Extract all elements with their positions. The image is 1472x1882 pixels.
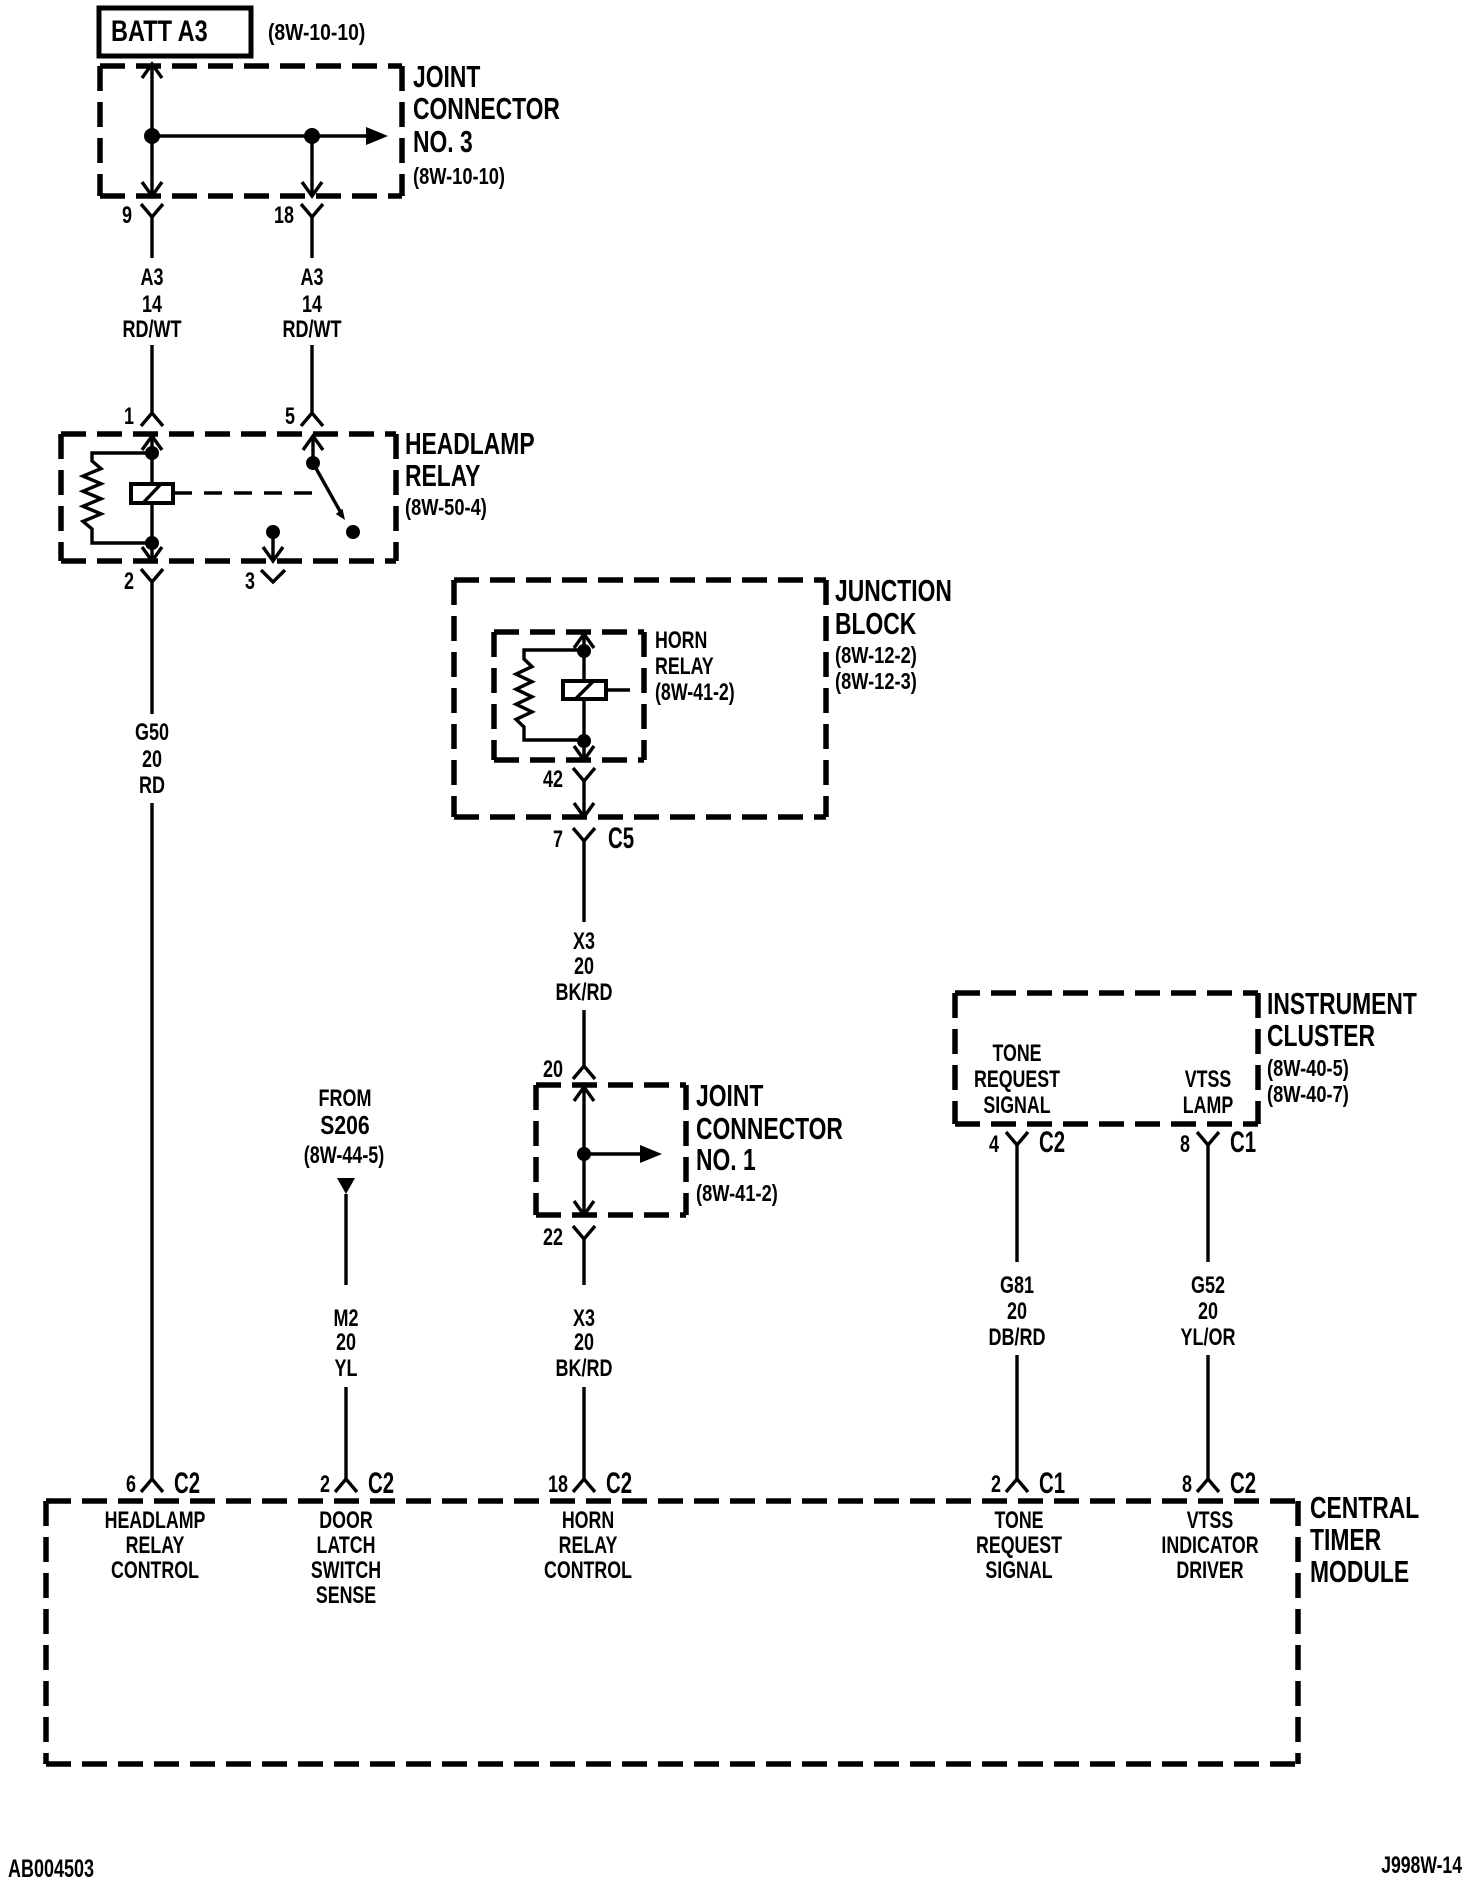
arrow up at JC1 pin 20 <box>574 1087 594 1101</box>
wire label G50 20 RD <box>135 720 169 799</box>
svg-text:RD/WT: RD/WT <box>123 317 182 343</box>
pin 5 connector of headlamp relay <box>285 404 323 430</box>
svg-text:7: 7 <box>553 827 563 853</box>
svg-text:(8W-10-10): (8W-10-10) <box>413 164 505 190</box>
wire: JC3 right drop to pin 18 <box>310 136 313 196</box>
svg-text:G81: G81 <box>1000 1273 1034 1299</box>
CTM pin 2 connector C2 <box>320 1467 394 1500</box>
wire X3 below JC1 <box>582 1239 585 1285</box>
svg-text:C2: C2 <box>606 1467 632 1500</box>
pin 18 connector <box>274 203 323 229</box>
horn relay box <box>494 629 644 635</box>
svg-text:A3: A3 <box>141 265 164 291</box>
wire: pin 1 to coil top node <box>150 436 153 484</box>
svg-text:SWITCH: SWITCH <box>311 1558 381 1584</box>
wire X3 to joint connector no. 1 <box>582 1010 585 1066</box>
pin 3 connector <box>245 569 285 595</box>
wire A3 right, upper segment <box>310 217 313 258</box>
svg-text:HEADLAMP: HEADLAMP <box>105 1508 206 1534</box>
svg-text:C2: C2 <box>1230 1467 1256 1500</box>
wire G81 upper segment <box>1015 1145 1018 1262</box>
svg-text:(8W-41-2): (8W-41-2) <box>655 680 735 706</box>
arrow down at junction block C5 <box>574 803 594 817</box>
svg-text:INDICATOR: INDICATOR <box>1161 1533 1258 1559</box>
tone request signal input label <box>976 1508 1062 1584</box>
junction block label <box>835 574 952 695</box>
svg-text:TONE: TONE <box>992 1041 1041 1067</box>
svg-text:5: 5 <box>285 404 295 430</box>
svg-text:NO. 3: NO. 3 <box>413 125 473 159</box>
CTM pin 2 connector C1 <box>991 1467 1065 1500</box>
svg-text:C2: C2 <box>368 1467 394 1500</box>
instrument cluster box <box>955 990 1258 996</box>
svg-text:SIGNAL: SIGNAL <box>983 1093 1050 1119</box>
node: JC3 bus junction right <box>304 128 320 144</box>
node: horn coil bottom <box>577 734 591 748</box>
svg-text:G52: G52 <box>1191 1273 1225 1299</box>
svg-text:C2: C2 <box>1039 1126 1065 1159</box>
feed box BATT A3 <box>99 8 251 56</box>
wire A3 left, upper segment <box>150 217 153 258</box>
svg-text:42: 42 <box>543 767 563 793</box>
node: JC3 bus junction left <box>144 128 160 144</box>
svg-text:CONNECTOR: CONNECTOR <box>413 92 560 126</box>
svg-text:TIMER: TIMER <box>1310 1523 1381 1557</box>
svg-text:8: 8 <box>1180 1132 1190 1158</box>
wire: battery feed up into BATT A3 <box>150 64 153 136</box>
arrow up at relay pin 5 <box>303 436 323 450</box>
wire M2 to CTM pin 2 <box>344 1387 347 1479</box>
svg-text:RELAY: RELAY <box>655 654 714 680</box>
svg-text:X3: X3 <box>573 1306 595 1332</box>
svg-text:RELAY: RELAY <box>126 1533 185 1559</box>
wire label A3 14 RD/WT (right) <box>283 265 342 343</box>
arrow down at JC3 pin 18 <box>302 182 322 196</box>
wire label A3 14 RD/WT (left) <box>123 265 182 343</box>
svg-text:VTSS: VTSS <box>1187 1508 1234 1534</box>
svg-text:CONTROL: CONTROL <box>111 1558 199 1584</box>
svg-text:BLOCK: BLOCK <box>835 607 917 641</box>
arrow: JC3 bus continues right <box>366 127 388 145</box>
svg-text:(8W-10-10): (8W-10-10) <box>268 19 365 45</box>
switch contact dot <box>346 525 360 539</box>
arrow down at horn relay pin 42 <box>574 746 594 760</box>
svg-text:CENTRAL: CENTRAL <box>1310 1491 1419 1525</box>
central timer module box <box>46 1498 1298 1504</box>
pin 8 connector C1 (instrument cluster) <box>1180 1126 1256 1159</box>
svg-text:(8W-40-7): (8W-40-7) <box>1267 1082 1349 1108</box>
wire label M2 20 YL <box>334 1306 359 1382</box>
arrow up at BATT A3 <box>142 64 162 78</box>
node: JC1 junction <box>577 1147 591 1161</box>
svg-text:9: 9 <box>122 203 132 229</box>
wire G50 upper segment <box>150 582 153 714</box>
wire: JC1 pass-through <box>582 1087 585 1215</box>
svg-text:DB/RD: DB/RD <box>989 1325 1046 1351</box>
svg-text:JOINT: JOINT <box>413 60 481 94</box>
wire: pin 42 to junction block edge <box>582 781 585 817</box>
svg-text:NO. 1: NO. 1 <box>696 1143 756 1177</box>
wire: JC3 internal bus <box>152 134 366 137</box>
wire: coil bottom to pin 2 <box>150 503 153 561</box>
svg-text:RD: RD <box>139 773 165 799</box>
headlamp relay control input label <box>105 1508 206 1584</box>
svg-text:(8W-12-3): (8W-12-3) <box>835 669 917 695</box>
wire M2 upper segment <box>344 1194 347 1285</box>
svg-text:20: 20 <box>142 747 162 773</box>
pin 9 connector <box>122 203 163 229</box>
svg-text:HORN: HORN <box>655 628 707 654</box>
wire: horn relay top to coil <box>582 634 585 681</box>
node: switch pivot <box>306 456 320 470</box>
wire: pin 5 to switch pivot <box>311 436 314 463</box>
svg-text:22: 22 <box>543 1225 563 1251</box>
svg-text:14: 14 <box>142 292 162 318</box>
pin 22 connector <box>543 1225 595 1251</box>
wire G50 lower segment (to CTM pin 6) <box>150 803 153 1479</box>
svg-text:J998W-14: J998W-14 <box>1381 1852 1462 1878</box>
svg-text:A3: A3 <box>301 265 324 291</box>
stationary contact for pin 3 <box>266 525 280 539</box>
pin 7 connector C5 <box>553 822 634 855</box>
wire G81 to CTM pin 2 C1 <box>1015 1355 1018 1479</box>
svg-text:CONTROL: CONTROL <box>544 1558 632 1584</box>
svg-text:BATT A3: BATT A3 <box>111 14 208 47</box>
svg-text:2: 2 <box>124 569 134 595</box>
wire X3 to CTM pin 18 <box>582 1387 585 1479</box>
svg-text:M2: M2 <box>334 1306 359 1332</box>
svg-text:S206: S206 <box>320 1111 369 1139</box>
central timer module label <box>1310 1491 1419 1589</box>
relay coil (horn) <box>563 681 606 699</box>
svg-text:HEADLAMP: HEADLAMP <box>405 427 535 461</box>
pin 4 connector C2 (instrument cluster) <box>989 1126 1065 1159</box>
svg-text:LAMP: LAMP <box>1183 1093 1233 1119</box>
resistor (headlamp relay suppression) <box>83 453 152 543</box>
wire: contact to pin 3 <box>271 532 274 561</box>
svg-text:18: 18 <box>274 203 294 229</box>
switch arm (headlamp relay contact) <box>313 463 341 513</box>
svg-text:(8W-12-2): (8W-12-2) <box>835 643 917 669</box>
svg-text:CLUSTER: CLUSTER <box>1267 1019 1375 1053</box>
svg-text:DOOR: DOOR <box>319 1508 372 1534</box>
tone request signal output label <box>974 1041 1060 1119</box>
CTM pin 18 connector C2 <box>548 1467 632 1500</box>
wire X3 upper segment <box>582 841 585 922</box>
arrow down at relay pin 2 <box>142 547 162 561</box>
arrow up at horn relay coil feed <box>574 634 594 648</box>
node: horn coil top <box>577 644 591 658</box>
arrow down at JC3 pin 9 <box>142 182 162 196</box>
svg-text:C2: C2 <box>174 1467 200 1500</box>
svg-text:20: 20 <box>1007 1299 1027 1325</box>
horn relay control input label <box>544 1508 632 1584</box>
wire A3 left, lower segment <box>150 345 153 413</box>
coil actuation stub <box>606 688 630 691</box>
joint connector no. 1 label <box>696 1079 843 1207</box>
svg-text:LATCH: LATCH <box>317 1533 376 1559</box>
node: coil bottom <box>145 536 159 550</box>
pin 1 connector of headlamp relay <box>124 404 163 430</box>
wire G52 upper segment <box>1206 1145 1209 1262</box>
svg-text:G50: G50 <box>135 720 169 746</box>
vtss lamp label <box>1183 1067 1233 1119</box>
svg-text:DRIVER: DRIVER <box>1176 1558 1243 1584</box>
svg-text:20: 20 <box>1198 1299 1218 1325</box>
svg-text:YL: YL <box>335 1356 358 1382</box>
svg-text:VTSS: VTSS <box>1185 1067 1232 1093</box>
pin 2 connector <box>124 569 163 595</box>
svg-text:HORN: HORN <box>562 1508 614 1534</box>
svg-text:14: 14 <box>302 292 322 318</box>
wire G52 to CTM pin 8 C2 <box>1206 1355 1209 1479</box>
svg-text:C1: C1 <box>1039 1467 1065 1500</box>
svg-text:INSTRUMENT: INSTRUMENT <box>1267 987 1417 1021</box>
svg-text:REQUEST: REQUEST <box>974 1067 1060 1093</box>
arrow up at relay pin 1 <box>142 436 162 450</box>
CTM pin 6 connector C2 <box>126 1467 200 1500</box>
pin 20 connector of JC1 <box>543 1057 595 1083</box>
svg-text:6: 6 <box>126 1472 136 1498</box>
svg-text:2: 2 <box>991 1472 1001 1498</box>
arrow down at relay pin 3 <box>263 547 283 561</box>
svg-text:(8W-41-2): (8W-41-2) <box>696 1181 778 1207</box>
off-page triangle from S206 <box>337 1178 355 1194</box>
svg-text:BK/RD: BK/RD <box>556 1356 613 1382</box>
svg-text:REQUEST: REQUEST <box>976 1533 1062 1559</box>
svg-text:20: 20 <box>574 954 594 980</box>
svg-text:RD/WT: RD/WT <box>283 317 342 343</box>
svg-text:RELAY: RELAY <box>405 459 480 493</box>
dashed actuation link from coil to switch <box>174 491 312 494</box>
svg-text:SIGNAL: SIGNAL <box>985 1558 1052 1584</box>
svg-text:C5: C5 <box>608 822 634 855</box>
CTM pin 8 connector C2 <box>1182 1467 1256 1500</box>
svg-text:C1: C1 <box>1230 1126 1256 1159</box>
svg-text:X3: X3 <box>573 929 595 955</box>
relay coil (headlamp) <box>131 484 173 503</box>
svg-text:20: 20 <box>336 1330 356 1356</box>
svg-text:(8W-40-5): (8W-40-5) <box>1267 1056 1349 1082</box>
svg-text:BK/RD: BK/RD <box>556 980 613 1006</box>
node: coil top <box>145 446 159 460</box>
svg-text:1: 1 <box>124 404 134 430</box>
svg-text:3: 3 <box>245 569 255 595</box>
joint connector no. 1 box <box>536 1082 686 1088</box>
vtss indicator driver label <box>1161 1508 1258 1584</box>
svg-text:TONE: TONE <box>994 1508 1043 1534</box>
door latch switch sense input label <box>311 1508 381 1609</box>
svg-text:18: 18 <box>548 1472 568 1498</box>
joint connector no. 3 box <box>100 63 402 69</box>
svg-text:(8W-44-5): (8W-44-5) <box>304 1143 385 1169</box>
headlamp relay box <box>61 431 396 437</box>
svg-text:FROM: FROM <box>319 1086 372 1112</box>
wire label X3 20 BK/RD (upper) <box>556 929 613 1006</box>
resistor (horn relay suppression) <box>516 650 584 740</box>
svg-text:SENSE: SENSE <box>316 1583 376 1609</box>
arrow down at JC1 pin 22 <box>574 1201 594 1215</box>
wire label G52 20 YL/OR <box>1181 1273 1236 1351</box>
wire label G81 20 DB/RD <box>989 1273 1046 1351</box>
svg-text:YL/OR: YL/OR <box>1181 1325 1236 1351</box>
horn relay label <box>655 628 735 706</box>
svg-text:RELAY: RELAY <box>559 1533 618 1559</box>
wire: horn coil bottom to pin 42 <box>582 699 585 760</box>
svg-text:(8W-50-4): (8W-50-4) <box>405 495 487 521</box>
junction block box <box>454 577 826 583</box>
svg-text:CONNECTOR: CONNECTOR <box>696 1112 843 1146</box>
svg-text:8: 8 <box>1182 1472 1192 1498</box>
svg-text:AB004503: AB004503 <box>8 1854 94 1882</box>
instrument cluster label <box>1267 987 1417 1108</box>
from S206 source label <box>304 1086 385 1169</box>
svg-text:JOINT: JOINT <box>696 1079 764 1113</box>
wire label X3 20 BK/RD (lower) <box>556 1306 613 1382</box>
svg-text:2: 2 <box>320 1472 330 1498</box>
wire: JC3 left drop to pin 9 <box>150 136 153 196</box>
svg-text:20: 20 <box>574 1330 594 1356</box>
headlamp relay label <box>405 427 535 521</box>
svg-text:20: 20 <box>543 1057 563 1083</box>
wire A3 right, lower segment <box>310 345 313 413</box>
JC1 bus arrow right <box>584 1152 642 1155</box>
joint connector no. 3 label <box>413 60 560 190</box>
pin 42 connector <box>543 767 595 793</box>
svg-text:JUNCTION: JUNCTION <box>835 574 952 608</box>
svg-text:MODULE: MODULE <box>1310 1555 1409 1589</box>
svg-text:4: 4 <box>989 1132 999 1158</box>
